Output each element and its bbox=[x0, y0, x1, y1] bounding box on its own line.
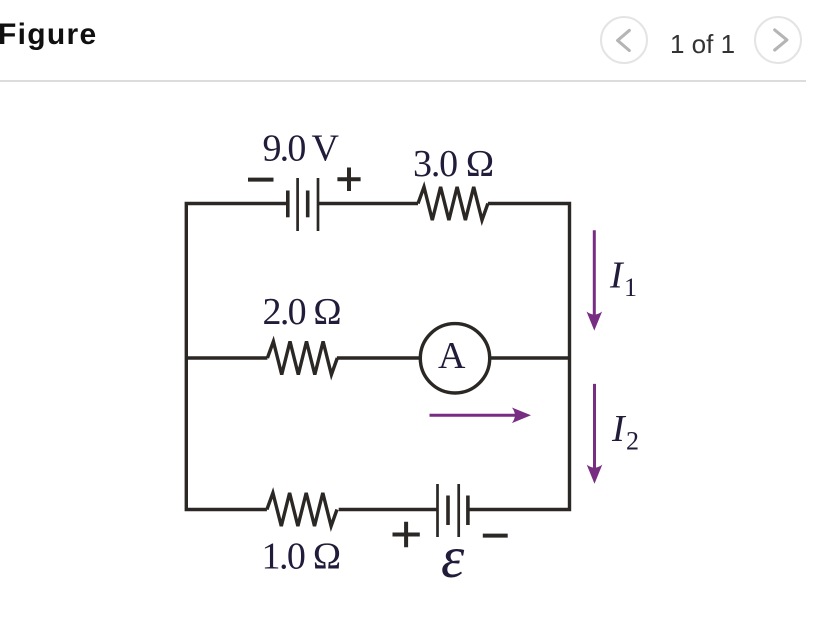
svg-text:ε: ε bbox=[441, 524, 465, 590]
resistor R 1.0 ohm zigzag bbox=[267, 493, 337, 526]
svg-text:3.0 Ω: 3.0 Ω bbox=[413, 143, 495, 185]
current direction arrow (horizontal) bbox=[430, 414, 519, 417]
nav next chevron bbox=[754, 16, 802, 64]
battery B2 short plate bbox=[446, 496, 450, 526]
current arrow I2 bbox=[593, 384, 596, 470]
battery B1 9.0 V plates bbox=[288, 178, 318, 231]
battery B1 plus sign bbox=[337, 168, 360, 192]
svg-text:1.0 Ω: 1.0 Ω bbox=[262, 536, 342, 578]
battery B2 minus sign bbox=[483, 534, 508, 538]
battery B2 (EMF) plates bbox=[438, 484, 468, 537]
svg-text:I: I bbox=[609, 255, 625, 297]
figure title bbox=[0, 18, 97, 52]
nav prev chevron bbox=[600, 16, 648, 64]
wire: right loop (top-right corner, right edge, bottom-right corner) bbox=[468, 204, 570, 510]
wire: bottom branch between resistor and battery bbox=[339, 508, 438, 511]
svg-text:2: 2 bbox=[626, 427, 639, 456]
header separator rule bbox=[0, 80, 806, 82]
svg-text:1: 1 bbox=[624, 273, 637, 302]
svg-text:A: A bbox=[438, 335, 466, 377]
battery B2 long plate (pos outer left) bbox=[436, 484, 439, 537]
svg-text:9.0 V: 9.0 V bbox=[263, 128, 340, 170]
wire: middle branch left of 2.0 ohm resistor bbox=[186, 356, 267, 359]
svg-text:I: I bbox=[611, 408, 627, 450]
nav next button circle bbox=[754, 16, 802, 64]
resistor R 2.0 ohm zigzag bbox=[267, 341, 337, 374]
wire: middle branch between resistor and ammeter bbox=[337, 356, 421, 359]
page count text bbox=[670, 29, 735, 60]
battery B2 short plate (neg right) bbox=[466, 496, 470, 526]
battery B1 short plate (inner) bbox=[306, 191, 310, 218]
battery B2 plus sign bbox=[393, 522, 420, 547]
wire: left loop (top-left corner, left edge, bottom-left corner) bbox=[186, 204, 287, 510]
resistor R 3.0 ohm zigzag bbox=[418, 187, 488, 220]
wire: middle branch right of ammeter bbox=[490, 356, 570, 359]
nav prev button circle bbox=[600, 16, 648, 64]
wire: top branch between battery and resistor bbox=[318, 202, 418, 205]
battery B1 short plate (neg outer left) bbox=[286, 191, 290, 218]
current arrow I1 bbox=[593, 230, 596, 317]
ammeter A circle bbox=[420, 324, 489, 393]
battery B1 long plate bbox=[296, 178, 299, 231]
battery B2 long plate (inner) bbox=[457, 484, 460, 537]
battery B1 long plate (pos right) bbox=[317, 178, 320, 231]
battery B1 minus sign bbox=[248, 178, 274, 182]
svg-text:2.0 Ω: 2.0 Ω bbox=[263, 291, 343, 333]
